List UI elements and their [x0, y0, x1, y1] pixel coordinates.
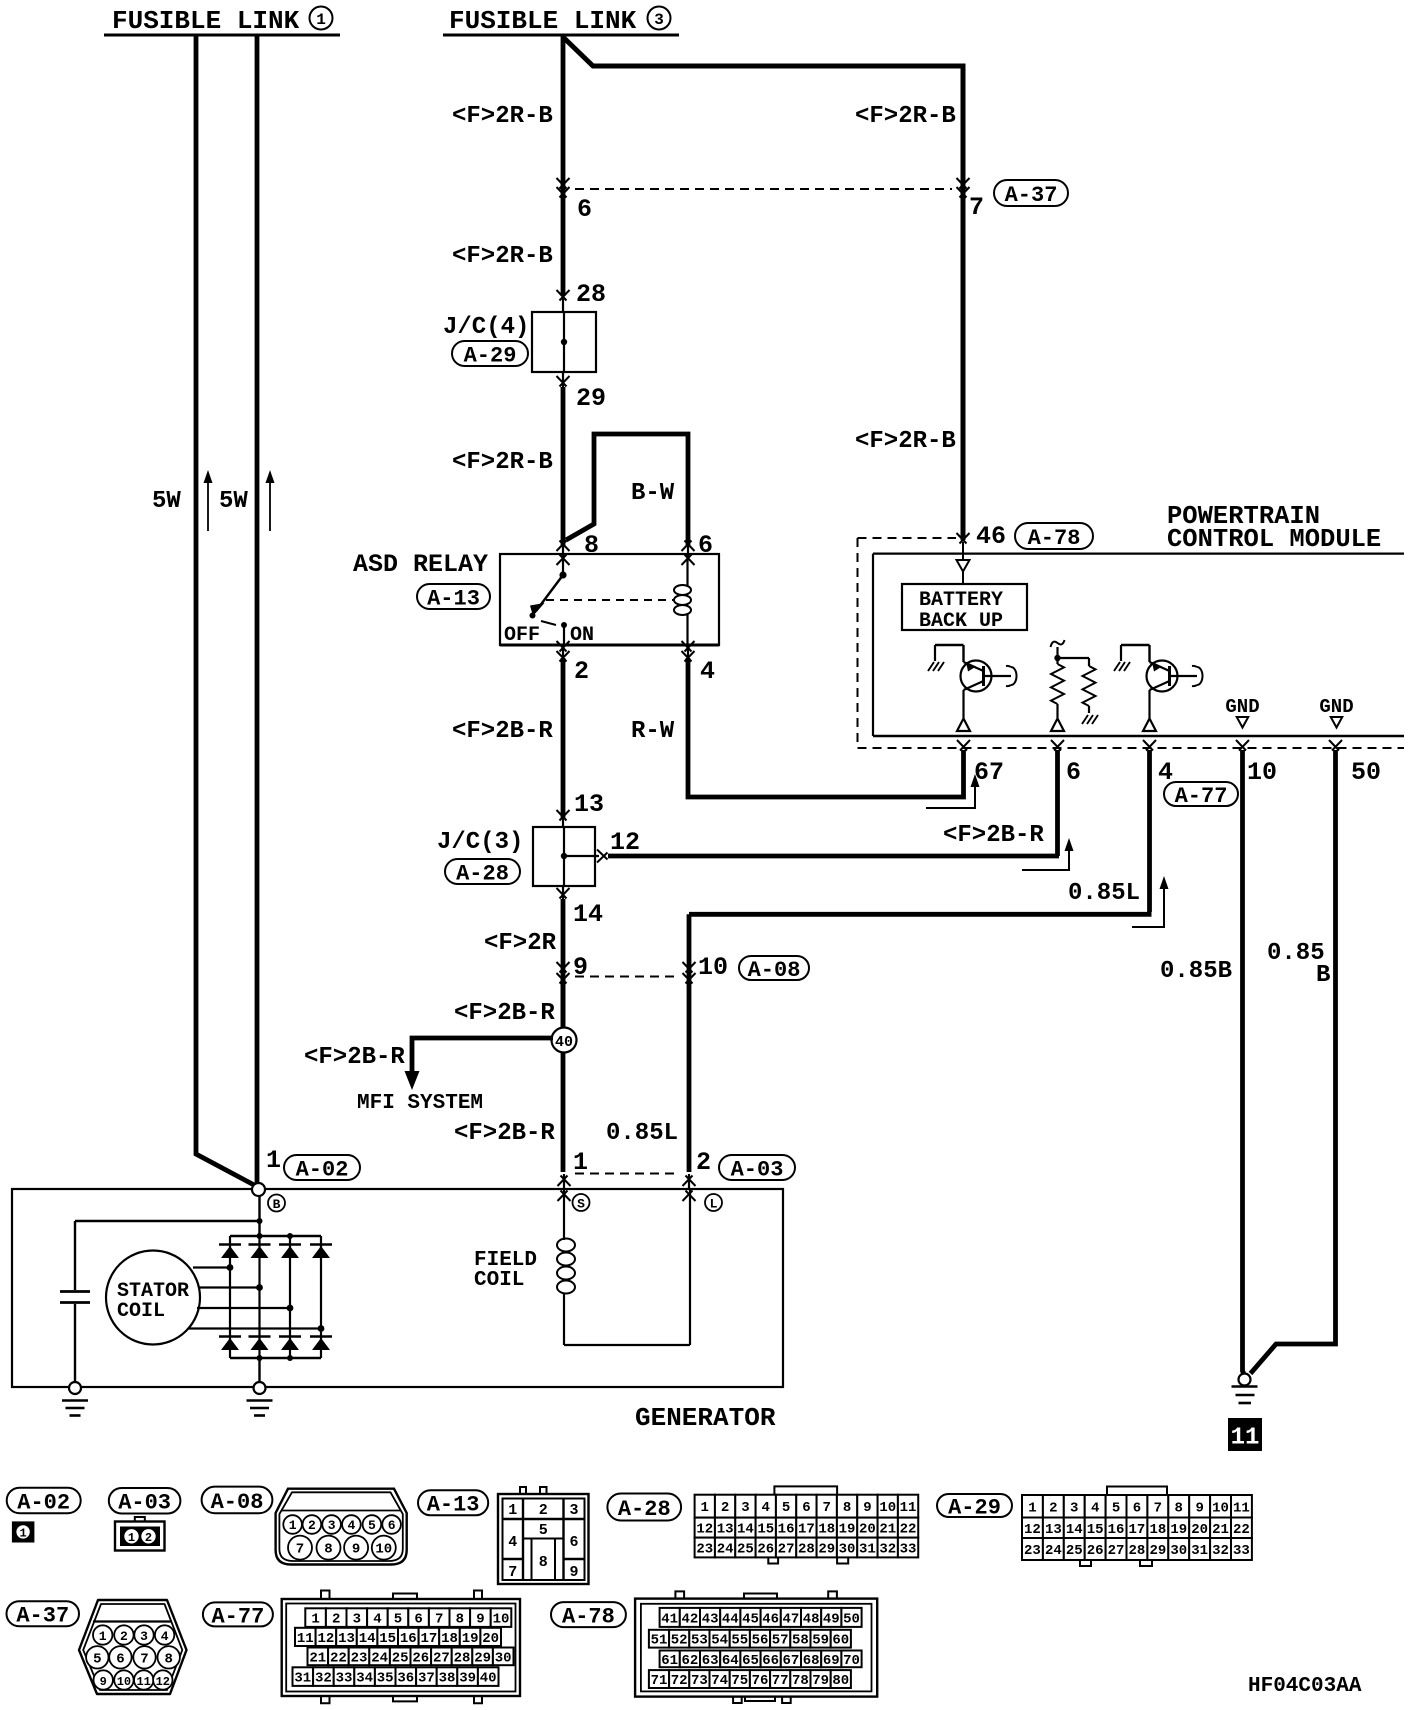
wire MFI branch: [412, 1038, 553, 1072]
diodes bottom row: [219, 1335, 241, 1338]
connector ref A-29 top: [452, 341, 528, 366]
wire 0.85L horizontal: [689, 912, 1152, 917]
svg-text:6: 6: [569, 1534, 578, 1551]
svg-text:4: 4: [347, 1518, 355, 1533]
svg-text:6: 6: [802, 1500, 810, 1516]
Q2 emitter terminal triangle: [1143, 719, 1156, 732]
stator phase wires: [193, 1266, 230, 1268]
svg-text:13: 13: [574, 790, 604, 819]
terminal 9 chevrons: [557, 962, 570, 973]
svg-text:A-78: A-78: [562, 1605, 615, 1630]
relay switch dash to ON: [541, 621, 556, 625]
svg-text:CONTROL MODULE: CONTROL MODULE: [1167, 525, 1381, 554]
svg-text:48: 48: [803, 1611, 820, 1627]
svg-text:A-77: A-77: [211, 1604, 264, 1629]
svg-text:7: 7: [1154, 1500, 1162, 1516]
svg-text:27: 27: [778, 1542, 795, 1558]
svg-text:40: 40: [480, 1671, 497, 1687]
svg-text:67: 67: [974, 758, 1004, 787]
svg-text:14: 14: [359, 1631, 376, 1647]
svg-text:29: 29: [474, 1650, 491, 1666]
connector ref A-29: [937, 1494, 1012, 1517]
svg-text:<F>2B-R: <F>2B-R: [304, 1044, 405, 1071]
svg-text:33: 33: [336, 1671, 353, 1687]
svg-text:8: 8: [456, 1612, 464, 1628]
svg-text:43: 43: [702, 1611, 719, 1627]
battery backup input triangle: [962, 542, 964, 559]
svg-text:6: 6: [698, 531, 713, 560]
svg-text:12: 12: [610, 828, 640, 857]
terminal 13 chevron: [557, 810, 570, 821]
svg-text:26: 26: [412, 1650, 429, 1666]
svg-text:B: B: [1316, 962, 1330, 989]
svg-text:A-28: A-28: [618, 1497, 671, 1522]
fusible link 3 bus bar: [443, 34, 679, 37]
svg-text:4: 4: [762, 1500, 770, 1516]
svg-text:55: 55: [731, 1633, 748, 1649]
svg-text:57: 57: [772, 1633, 789, 1649]
terminal 14 chevron: [562, 885, 564, 899]
svg-text:COIL: COIL: [117, 1300, 165, 1323]
svg-text:58: 58: [792, 1633, 809, 1649]
terminal 12 chevron: [564, 855, 599, 857]
wire B-W branch: [566, 434, 688, 545]
svg-text:A-78: A-78: [1028, 526, 1081, 551]
diode bridge columns: [229, 1236, 231, 1358]
svg-text:16: 16: [778, 1522, 795, 1538]
svg-text:74: 74: [711, 1673, 728, 1689]
svg-text:30: 30: [839, 1542, 856, 1558]
svg-text:28: 28: [798, 1542, 815, 1558]
svg-text:4: 4: [373, 1612, 381, 1628]
terminal 7 chevrons: [957, 178, 970, 189]
svg-text:2: 2: [145, 1531, 152, 1545]
svg-text:71: 71: [651, 1673, 668, 1689]
connector A-29 pin view: [1107, 1487, 1167, 1496]
svg-text:11: 11: [1231, 1425, 1260, 1452]
svg-text:7: 7: [508, 1564, 517, 1581]
svg-text:59: 59: [812, 1633, 829, 1649]
terminal 67 chevron: [957, 740, 970, 751]
svg-text:A-37: A-37: [16, 1604, 69, 1629]
svg-text:ASD RELAY: ASD RELAY: [353, 550, 488, 579]
svg-text:9: 9: [1195, 1500, 1203, 1516]
svg-text:12: 12: [317, 1631, 334, 1647]
svg-text:2: 2: [1049, 1500, 1057, 1516]
svg-text:1: 1: [99, 1629, 107, 1644]
wire fusible link 1 left (5W): [196, 37, 256, 1187]
connector A-02 pin view: [12, 1521, 35, 1542]
svg-text:MFI SYSTEM: MFI SYSTEM: [357, 1092, 483, 1115]
svg-text:70: 70: [843, 1653, 860, 1669]
svg-text:J/C(3): J/C(3): [437, 829, 523, 856]
svg-text:0.85L: 0.85L: [1068, 880, 1140, 907]
ground left: [69, 1382, 81, 1394]
svg-text:10: 10: [1247, 758, 1277, 787]
svg-text:14: 14: [737, 1522, 754, 1538]
svg-text:77: 77: [772, 1673, 789, 1689]
svg-text:6: 6: [414, 1612, 422, 1628]
svg-text:12: 12: [696, 1522, 713, 1538]
svg-text:2: 2: [539, 1502, 548, 1519]
wire pcm4 down: [1147, 750, 1152, 912]
connector ref A-77 mid: [1164, 782, 1238, 806]
relay coil: [686, 555, 688, 586]
svg-text:21: 21: [1212, 1522, 1229, 1538]
svg-text:31: 31: [1191, 1543, 1208, 1559]
connector ref A-13 top: [417, 584, 490, 609]
svg-text:10: 10: [879, 1500, 896, 1516]
bridge junction dots: [257, 1233, 263, 1239]
svg-text:47: 47: [782, 1611, 799, 1627]
svg-text:9: 9: [476, 1612, 484, 1628]
PCM dashed boundary left: [857, 538, 859, 748]
svg-text:<F>2B-R: <F>2B-R: [452, 718, 553, 745]
wire fusible link 1 right (5W): [255, 37, 260, 1185]
connector ref A-37: [994, 180, 1068, 206]
svg-text:<F>2B-R: <F>2B-R: [454, 1120, 555, 1147]
svg-text:11: 11: [1233, 1500, 1250, 1516]
svg-text:L: L: [710, 1197, 718, 1212]
svg-text:BACK UP: BACK UP: [919, 610, 1003, 633]
relay switch arm: [536, 575, 563, 611]
arrow 5W left: [207, 478, 209, 531]
svg-text:28: 28: [454, 1650, 471, 1666]
svg-text:20: 20: [859, 1522, 876, 1538]
svg-text:<F>2R-B: <F>2R-B: [855, 428, 956, 455]
terminal 4 pcm chevron: [1143, 740, 1156, 751]
svg-text:3: 3: [569, 1502, 578, 1519]
connector A-03 pin view: [135, 1517, 145, 1522]
wire R-W relay to PCM67: [687, 645, 689, 658]
svg-text:5: 5: [539, 1522, 548, 1539]
svg-text:61: 61: [661, 1653, 678, 1669]
svg-text:7: 7: [435, 1612, 443, 1628]
svg-text:BATTERY: BATTERY: [919, 589, 1003, 612]
wire dashed A-03: [575, 1173, 680, 1175]
svg-text:22: 22: [1233, 1522, 1250, 1538]
terminal 6 relay chevron: [682, 541, 695, 552]
svg-text:A-02: A-02: [17, 1490, 70, 1515]
svg-text:19: 19: [1170, 1522, 1187, 1538]
svg-text:A-08: A-08: [748, 958, 801, 983]
svg-text:A-03: A-03: [731, 1157, 784, 1182]
svg-text:5: 5: [394, 1612, 402, 1628]
svg-text:<F>2R-B: <F>2R-B: [452, 103, 553, 130]
svg-text:53: 53: [691, 1633, 708, 1649]
svg-text:13: 13: [1045, 1522, 1062, 1538]
svg-text:6: 6: [116, 1651, 124, 1667]
diodes top row: [219, 1243, 241, 1246]
fusible link 1 bus bar: [104, 34, 340, 37]
connector ref A-03 mid: [719, 1155, 795, 1180]
svg-text:3: 3: [654, 11, 664, 29]
svg-text:32: 32: [1212, 1543, 1229, 1559]
terminal 6 chevrons: [557, 178, 570, 189]
continuation arrow 67: [926, 782, 975, 808]
svg-text:65: 65: [742, 1653, 759, 1669]
resistor network: [1051, 640, 1065, 647]
diode bridge buses: [230, 1235, 321, 1237]
svg-text:COIL: COIL: [474, 1269, 524, 1292]
relay dashed link: [546, 599, 673, 601]
svg-text:75: 75: [731, 1673, 748, 1689]
svg-text:1: 1: [266, 1146, 281, 1175]
terminal 50 chevron: [1329, 740, 1342, 751]
svg-text:2: 2: [696, 1148, 711, 1177]
svg-text:21: 21: [879, 1522, 896, 1538]
PCM box: [873, 552, 1404, 554]
wire field coil to L: [564, 1344, 690, 1346]
wire branch to PCM pin 46: [564, 38, 963, 540]
svg-text:<F>2R: <F>2R: [484, 930, 557, 957]
svg-text:9: 9: [352, 1542, 360, 1558]
svg-text:18: 18: [1149, 1522, 1166, 1538]
connector ref A-78: [551, 1602, 626, 1627]
svg-text:8: 8: [324, 1542, 332, 1558]
svg-text:5W: 5W: [219, 488, 248, 515]
wire 2R down: [561, 899, 566, 1028]
svg-text:22: 22: [330, 1650, 347, 1666]
terminal 46 chevron: [957, 533, 970, 544]
svg-text:33: 33: [1233, 1543, 1250, 1559]
svg-text:25: 25: [392, 1650, 409, 1666]
svg-text:13: 13: [338, 1631, 355, 1647]
connector ref A-03: [109, 1488, 181, 1514]
svg-text:5: 5: [782, 1500, 790, 1516]
svg-text:26: 26: [1087, 1543, 1104, 1559]
capacitor C1: [60, 1290, 90, 1293]
svg-text:2: 2: [574, 657, 589, 686]
svg-text:3: 3: [741, 1500, 749, 1516]
svg-text:2: 2: [120, 1629, 128, 1644]
svg-text:27: 27: [433, 1650, 450, 1666]
transistor Q1: [935, 644, 964, 646]
svg-text:50: 50: [1351, 758, 1381, 787]
wire dashed A-37: [575, 188, 952, 190]
connector A-13 pin view: [520, 1487, 526, 1494]
svg-text:1: 1: [19, 1527, 26, 1541]
svg-text:30: 30: [1170, 1543, 1187, 1559]
svg-text:10: 10: [117, 1675, 131, 1689]
wire B node down: [258, 1196, 260, 1236]
page ref 11 box: [1228, 1418, 1262, 1451]
svg-text:4: 4: [508, 1534, 517, 1551]
wire pcm6 down: [1055, 750, 1060, 856]
svg-text:17: 17: [420, 1631, 437, 1647]
svg-text:23: 23: [351, 1650, 368, 1666]
wire to capacitor: [75, 1220, 260, 1222]
svg-text:26: 26: [757, 1542, 774, 1558]
svg-text:44: 44: [722, 1611, 739, 1627]
svg-text:5: 5: [93, 1651, 101, 1667]
wire inside J/C(4): [563, 313, 565, 371]
transistor Q2: [1121, 644, 1150, 646]
terminal L chevron: [683, 1191, 696, 1202]
svg-text:HF04C03AA: HF04C03AA: [1248, 1675, 1362, 1698]
svg-text:66: 66: [762, 1653, 779, 1669]
svg-text:13: 13: [717, 1522, 734, 1538]
svg-text:<F>2R-B: <F>2R-B: [855, 103, 956, 130]
svg-text:60: 60: [832, 1633, 849, 1649]
svg-text:28: 28: [1129, 1543, 1146, 1559]
svg-text:B-W: B-W: [631, 480, 675, 507]
svg-text:FUSIBLE LINK: FUSIBLE LINK: [112, 6, 300, 36]
continuation arrow pcm6: [1022, 846, 1069, 870]
svg-text:62: 62: [681, 1653, 698, 1669]
svg-text:GND: GND: [1319, 696, 1353, 718]
svg-text:10: 10: [375, 1542, 392, 1558]
svg-text:15: 15: [757, 1522, 774, 1538]
svg-text:42: 42: [681, 1611, 698, 1627]
svg-text:79: 79: [812, 1673, 829, 1689]
svg-text:FUSIBLE LINK: FUSIBLE LINK: [449, 6, 637, 36]
svg-text:9: 9: [573, 953, 588, 982]
svg-text:34: 34: [356, 1671, 373, 1687]
svg-text:11: 11: [900, 1500, 917, 1516]
connector ref A-02 mid: [284, 1155, 360, 1180]
svg-text:<F>2R-B: <F>2R-B: [452, 449, 553, 476]
svg-text:45: 45: [742, 1611, 759, 1627]
svg-text:40: 40: [555, 1034, 573, 1051]
svg-text:A-28: A-28: [456, 861, 509, 886]
svg-text:4: 4: [1091, 1500, 1099, 1516]
terminal 28 chevron: [557, 290, 570, 301]
svg-text:A-13: A-13: [427, 586, 480, 611]
wire 2B-R horizontal: [608, 854, 1059, 859]
svg-text:32: 32: [879, 1542, 896, 1558]
label S terminal: [573, 1194, 590, 1211]
svg-text:7: 7: [969, 193, 984, 222]
svg-text:GENERATOR: GENERATOR: [635, 1403, 776, 1433]
svg-text:3: 3: [140, 1629, 148, 1644]
svg-text:15: 15: [1087, 1522, 1104, 1538]
connector ref A-28: [607, 1494, 681, 1521]
svg-text:<F>2B-R: <F>2B-R: [943, 822, 1044, 849]
continuation arrow 0.85L: [1132, 884, 1164, 927]
svg-text:7: 7: [140, 1651, 148, 1667]
svg-text:39: 39: [459, 1671, 476, 1687]
svg-text:51: 51: [651, 1633, 668, 1649]
svg-text:14: 14: [1066, 1522, 1083, 1538]
svg-text:80: 80: [832, 1673, 849, 1689]
svg-text:B: B: [273, 1197, 281, 1212]
svg-text:2: 2: [332, 1612, 340, 1628]
svg-text:2: 2: [721, 1500, 729, 1516]
svg-text:49: 49: [823, 1611, 840, 1627]
svg-text:19: 19: [462, 1631, 479, 1647]
svg-text:24: 24: [371, 1650, 388, 1666]
svg-text:10: 10: [493, 1612, 510, 1628]
svg-text:1: 1: [316, 11, 326, 29]
svg-text:20: 20: [1191, 1522, 1208, 1538]
svg-text:38: 38: [439, 1671, 456, 1687]
svg-text:46: 46: [762, 1611, 779, 1627]
svg-text:1: 1: [311, 1612, 319, 1628]
svg-text:18: 18: [441, 1631, 458, 1647]
connector ref A-77: [203, 1602, 273, 1626]
svg-text:0.85B: 0.85B: [1160, 958, 1232, 985]
svg-text:3: 3: [1070, 1500, 1078, 1516]
relay ON contact: [561, 622, 567, 628]
svg-text:23: 23: [696, 1542, 713, 1558]
svg-text:54: 54: [711, 1633, 728, 1649]
svg-text:9: 9: [100, 1675, 107, 1689]
svg-text:12: 12: [1024, 1522, 1041, 1538]
svg-text:17: 17: [1129, 1522, 1146, 1538]
ground right: [1239, 1374, 1251, 1386]
svg-text:30: 30: [495, 1650, 512, 1666]
svg-text:6: 6: [577, 195, 592, 224]
connector A-28 pin view: [774, 1486, 837, 1494]
svg-text:J/C(4): J/C(4): [443, 314, 529, 341]
wire 2B-R to gen: [561, 1052, 566, 1172]
connector A-08 pin view: [276, 1489, 407, 1565]
relay ASD box: [500, 554, 719, 645]
svg-text:6: 6: [1066, 758, 1081, 787]
connector ref A-13: [418, 1490, 488, 1515]
svg-text:ON: ON: [570, 624, 594, 647]
svg-text:<F>2B-R: <F>2B-R: [454, 1000, 555, 1027]
terminal 10 chevrons: [683, 962, 696, 973]
svg-text:64: 64: [722, 1653, 739, 1669]
svg-text:56: 56: [752, 1633, 769, 1649]
svg-text:78: 78: [792, 1673, 809, 1689]
svg-text:16: 16: [1108, 1522, 1125, 1538]
wire 0.85B pin10: [1243, 750, 1245, 1374]
svg-text:69: 69: [823, 1653, 840, 1669]
svg-text:25: 25: [737, 1542, 754, 1558]
svg-text:20: 20: [482, 1631, 499, 1647]
svg-text:5: 5: [1112, 1500, 1120, 1516]
svg-text:21: 21: [309, 1650, 326, 1666]
terminal S chevron: [558, 1191, 571, 1202]
terminal 2 chevron: [683, 1176, 696, 1187]
connector ref A-78 top: [1015, 523, 1093, 549]
junction J/C(3) box: [533, 827, 595, 886]
svg-text:4: 4: [161, 1629, 169, 1644]
svg-text:37: 37: [418, 1671, 435, 1687]
relay switch common: [562, 555, 564, 575]
svg-text:A-08: A-08: [211, 1490, 264, 1515]
wire 2B-R relay to JC3: [562, 645, 564, 658]
wire main 2R-B upper: [561, 37, 566, 297]
svg-text:0.85L: 0.85L: [606, 1120, 678, 1147]
Q1 emitter terminal triangle: [957, 719, 970, 732]
battery backup box: [902, 584, 1027, 630]
svg-text:2: 2: [308, 1518, 316, 1533]
terminal 2 chevron: [557, 641, 570, 652]
connector A-78 pin view: [675, 1591, 684, 1598]
svg-text:A-29: A-29: [948, 1495, 1001, 1520]
wire L down: [687, 914, 692, 1172]
svg-text:17: 17: [798, 1522, 815, 1538]
terminal 4 chevron: [682, 641, 695, 652]
svg-text:11: 11: [297, 1631, 314, 1647]
svg-text:8: 8: [539, 1554, 548, 1571]
terminal 29 chevron: [562, 371, 564, 387]
svg-text:8: 8: [1175, 1500, 1183, 1516]
R1 terminal triangle: [1051, 719, 1064, 732]
ground center: [254, 1382, 266, 1394]
svg-text:OFF: OFF: [504, 624, 540, 647]
field coil: [563, 1190, 565, 1240]
junction 40 circle: [561, 977, 566, 1028]
svg-text:1: 1: [701, 1500, 709, 1516]
svg-text:14: 14: [573, 900, 603, 929]
svg-text:A-13: A-13: [427, 1493, 480, 1518]
connector ref A-02: [7, 1488, 81, 1514]
